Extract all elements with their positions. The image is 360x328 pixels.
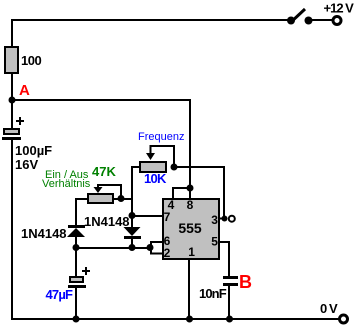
junction dot threshold-trigger xyxy=(147,244,154,251)
label 47uF xyxy=(46,287,74,302)
junction dot C2 ground xyxy=(73,316,80,323)
capacitor C3 10nF xyxy=(223,276,238,286)
wire D2 cathode down xyxy=(131,239,133,249)
label 1N4148 right xyxy=(84,214,130,229)
svg-text:1N4148: 1N4148 xyxy=(84,214,130,229)
wire C3 to ground bus xyxy=(228,286,230,319)
wire pin 1 to ground bus xyxy=(188,259,190,319)
svg-text:10nF: 10nF xyxy=(199,286,227,301)
pin 3 label xyxy=(211,213,218,227)
wire P2 wiper to right terminal xyxy=(97,184,122,198)
label 16V xyxy=(15,157,38,172)
wire pin 3 stub xyxy=(220,218,225,220)
svg-text:100: 100 xyxy=(21,53,41,68)
svg-text:B: B xyxy=(239,272,252,292)
wire C2 to ground bus xyxy=(75,288,77,319)
potentiometer P2 47K body xyxy=(88,194,113,203)
wire pin 8 stub xyxy=(189,188,191,198)
pin 2 label xyxy=(164,246,171,260)
svg-text:A: A xyxy=(19,82,30,99)
svg-text:1N4148: 1N4148 xyxy=(21,226,67,241)
pin 7 label xyxy=(164,210,171,224)
pin 5 label xyxy=(211,235,218,249)
label 100uF xyxy=(15,143,52,158)
wire pin8 column vertical xyxy=(189,99,191,189)
label node A xyxy=(19,82,30,99)
capacitor C2 47uF xyxy=(68,277,86,288)
potentiometer P2 wiper arrow xyxy=(94,184,103,193)
wire P1 wiper to right terminal xyxy=(150,145,175,166)
wire D1 anode down xyxy=(75,237,77,249)
label Frequenz xyxy=(138,131,184,143)
svg-text:7: 7 xyxy=(164,210,171,224)
wire pins 6 and 2 stubs xyxy=(150,241,162,255)
junction dot discharge bottom xyxy=(129,212,136,219)
svg-text:3: 3 xyxy=(211,213,218,227)
label 1N4148 left xyxy=(21,226,67,241)
capacitor C2 47uF plus sign xyxy=(82,267,90,275)
svg-text:100µF: 100µF xyxy=(15,143,52,158)
capacitor C1 100uF xyxy=(2,129,21,140)
wire pin3 column vertical xyxy=(223,166,225,218)
junction dot pin 1 ground xyxy=(186,316,193,323)
wire C2 47uF down xyxy=(75,248,77,278)
label Ein / Aus xyxy=(45,169,89,181)
node A junction dot xyxy=(9,97,16,104)
wire pin 4 branch xyxy=(172,187,190,198)
wire bus diodes to pins 6-2 xyxy=(76,247,151,249)
wire P2 left terminal down xyxy=(75,198,88,226)
diode D1 1N4148 triangle xyxy=(67,228,85,237)
resistor R1 100 xyxy=(5,47,18,73)
wire pin 5 stub to C3 xyxy=(220,241,230,277)
terminal output pin 3 circle xyxy=(229,216,235,222)
label 555 xyxy=(178,220,202,236)
svg-text:8: 8 xyxy=(187,198,194,212)
potentiometer P1 10K body xyxy=(140,162,166,172)
capacitor C1 100uF plus sign xyxy=(16,117,24,125)
label node B xyxy=(239,272,252,292)
junction dot pins 4-8 xyxy=(187,185,194,192)
pin 1 label xyxy=(188,245,195,259)
svg-text:47K: 47K xyxy=(92,164,116,179)
junction dot D1 bus xyxy=(73,244,80,251)
wire P2 right terminal to discharge column xyxy=(113,198,133,200)
svg-text:555: 555 xyxy=(178,220,202,236)
junction dot C3 ground xyxy=(226,316,233,323)
junction dot pin 3 xyxy=(222,216,228,222)
switch S1 blade xyxy=(290,9,305,23)
junction dot D2 bus xyxy=(129,244,136,251)
svg-text:47µF: 47µF xyxy=(46,287,74,302)
junction dot P2 right xyxy=(118,195,125,202)
wire resistor to node A xyxy=(11,73,13,101)
wire top rail +12V xyxy=(11,19,289,21)
svg-text:Frequenz: Frequenz xyxy=(138,131,184,143)
diode D2 1N4148 triangle xyxy=(124,215,141,236)
svg-text:16V: 16V xyxy=(15,157,38,172)
label 10nF xyxy=(199,286,227,301)
label 47K xyxy=(92,164,116,179)
svg-text:1: 1 xyxy=(188,245,195,259)
svg-text:Verhältnis: Verhältnis xyxy=(42,178,91,190)
junction dot P1 right xyxy=(171,164,178,171)
svg-text:2: 2 xyxy=(164,246,171,260)
switch S1 pole dot left xyxy=(287,17,295,25)
diode D1 1N4148 cathode bar xyxy=(68,225,85,228)
terminal 0V circle xyxy=(340,315,348,323)
svg-text:10K: 10K xyxy=(144,171,167,186)
pin 6 label xyxy=(164,234,171,248)
wire left rail bottom segment xyxy=(11,140,13,320)
svg-text:5: 5 xyxy=(211,235,218,249)
label 10K xyxy=(144,171,167,186)
wire P1 left to discharge node xyxy=(131,166,140,216)
wire P1 right to pin3 column xyxy=(174,166,225,168)
label 100 xyxy=(21,53,41,68)
label +12 V xyxy=(324,1,355,16)
label Verhaeltnis xyxy=(42,178,91,190)
op-amp U1 555 body xyxy=(163,199,219,259)
wire switch to terminal xyxy=(311,19,332,21)
pin 4 label xyxy=(168,198,175,212)
potentiometer P1 wiper arrow xyxy=(146,145,155,160)
svg-text:0 V: 0 V xyxy=(320,301,338,316)
label 0 V xyxy=(320,301,338,316)
wire pin 7 stub xyxy=(132,215,162,217)
svg-text:+12 V: +12 V xyxy=(324,1,355,16)
pin 8 label xyxy=(187,198,194,212)
diode D2 1N4148 cathode bar xyxy=(124,236,141,239)
terminal +12V circle xyxy=(333,17,341,25)
switch S1 pole dot right xyxy=(305,17,313,25)
wire node A down to capacitor C1 xyxy=(11,100,13,128)
wire ground bus bottom xyxy=(11,318,339,320)
wire node A to pin8 column xyxy=(12,99,191,101)
wire left rail top segment xyxy=(11,19,13,49)
